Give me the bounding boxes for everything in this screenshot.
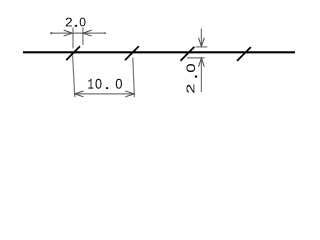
wire dim1 left arrow <box>64 30 73 36</box>
wire tick 1 <box>66 46 80 60</box>
wire tick 2 <box>125 46 139 60</box>
wire dim1 line end caps <box>50 32 52 34</box>
text glyph T2 0b <box>116 79 122 89</box>
node dim1 extension line right <box>82 28 84 46</box>
wire dim1 dimension line <box>50 32 105 34</box>
node dim2 extension line right <box>133 58 135 98</box>
wire dim2 left arrow <box>75 91 84 97</box>
wire tick 3 <box>181 47 195 61</box>
wire dim3 up arrow <box>199 58 205 67</box>
text glyph T1 0 <box>80 18 86 27</box>
wire dim3 vertical dimension line lower <box>200 58 202 92</box>
wire dim2 right arrow <box>125 91 134 97</box>
node dim3 extension line lower <box>187 57 205 59</box>
wire dim3 vertical dimension line upper <box>200 29 202 47</box>
node baseline: main weld line <box>23 51 295 53</box>
text glyph T3 dot <box>195 76 197 78</box>
text glyph T2 dot <box>106 87 108 89</box>
node dim2 extension line left <box>73 56 75 98</box>
text glyph T1 2 <box>66 18 72 27</box>
text glyph T3 2 <box>187 85 195 93</box>
wire dim3 down arrow <box>199 38 205 47</box>
wire dim1 right arrow <box>83 30 92 36</box>
wire dim2 dimension line <box>75 93 135 95</box>
text glyph T2 0a <box>96 79 102 89</box>
wire tick 4 <box>237 47 251 61</box>
text glyph T1 dot <box>75 25 77 27</box>
text glyph T2 1 <box>88 79 93 89</box>
text glyph T3 0 <box>187 64 196 72</box>
node dim1 extension line left <box>72 28 74 49</box>
node dim3 extension line upper <box>196 46 208 48</box>
